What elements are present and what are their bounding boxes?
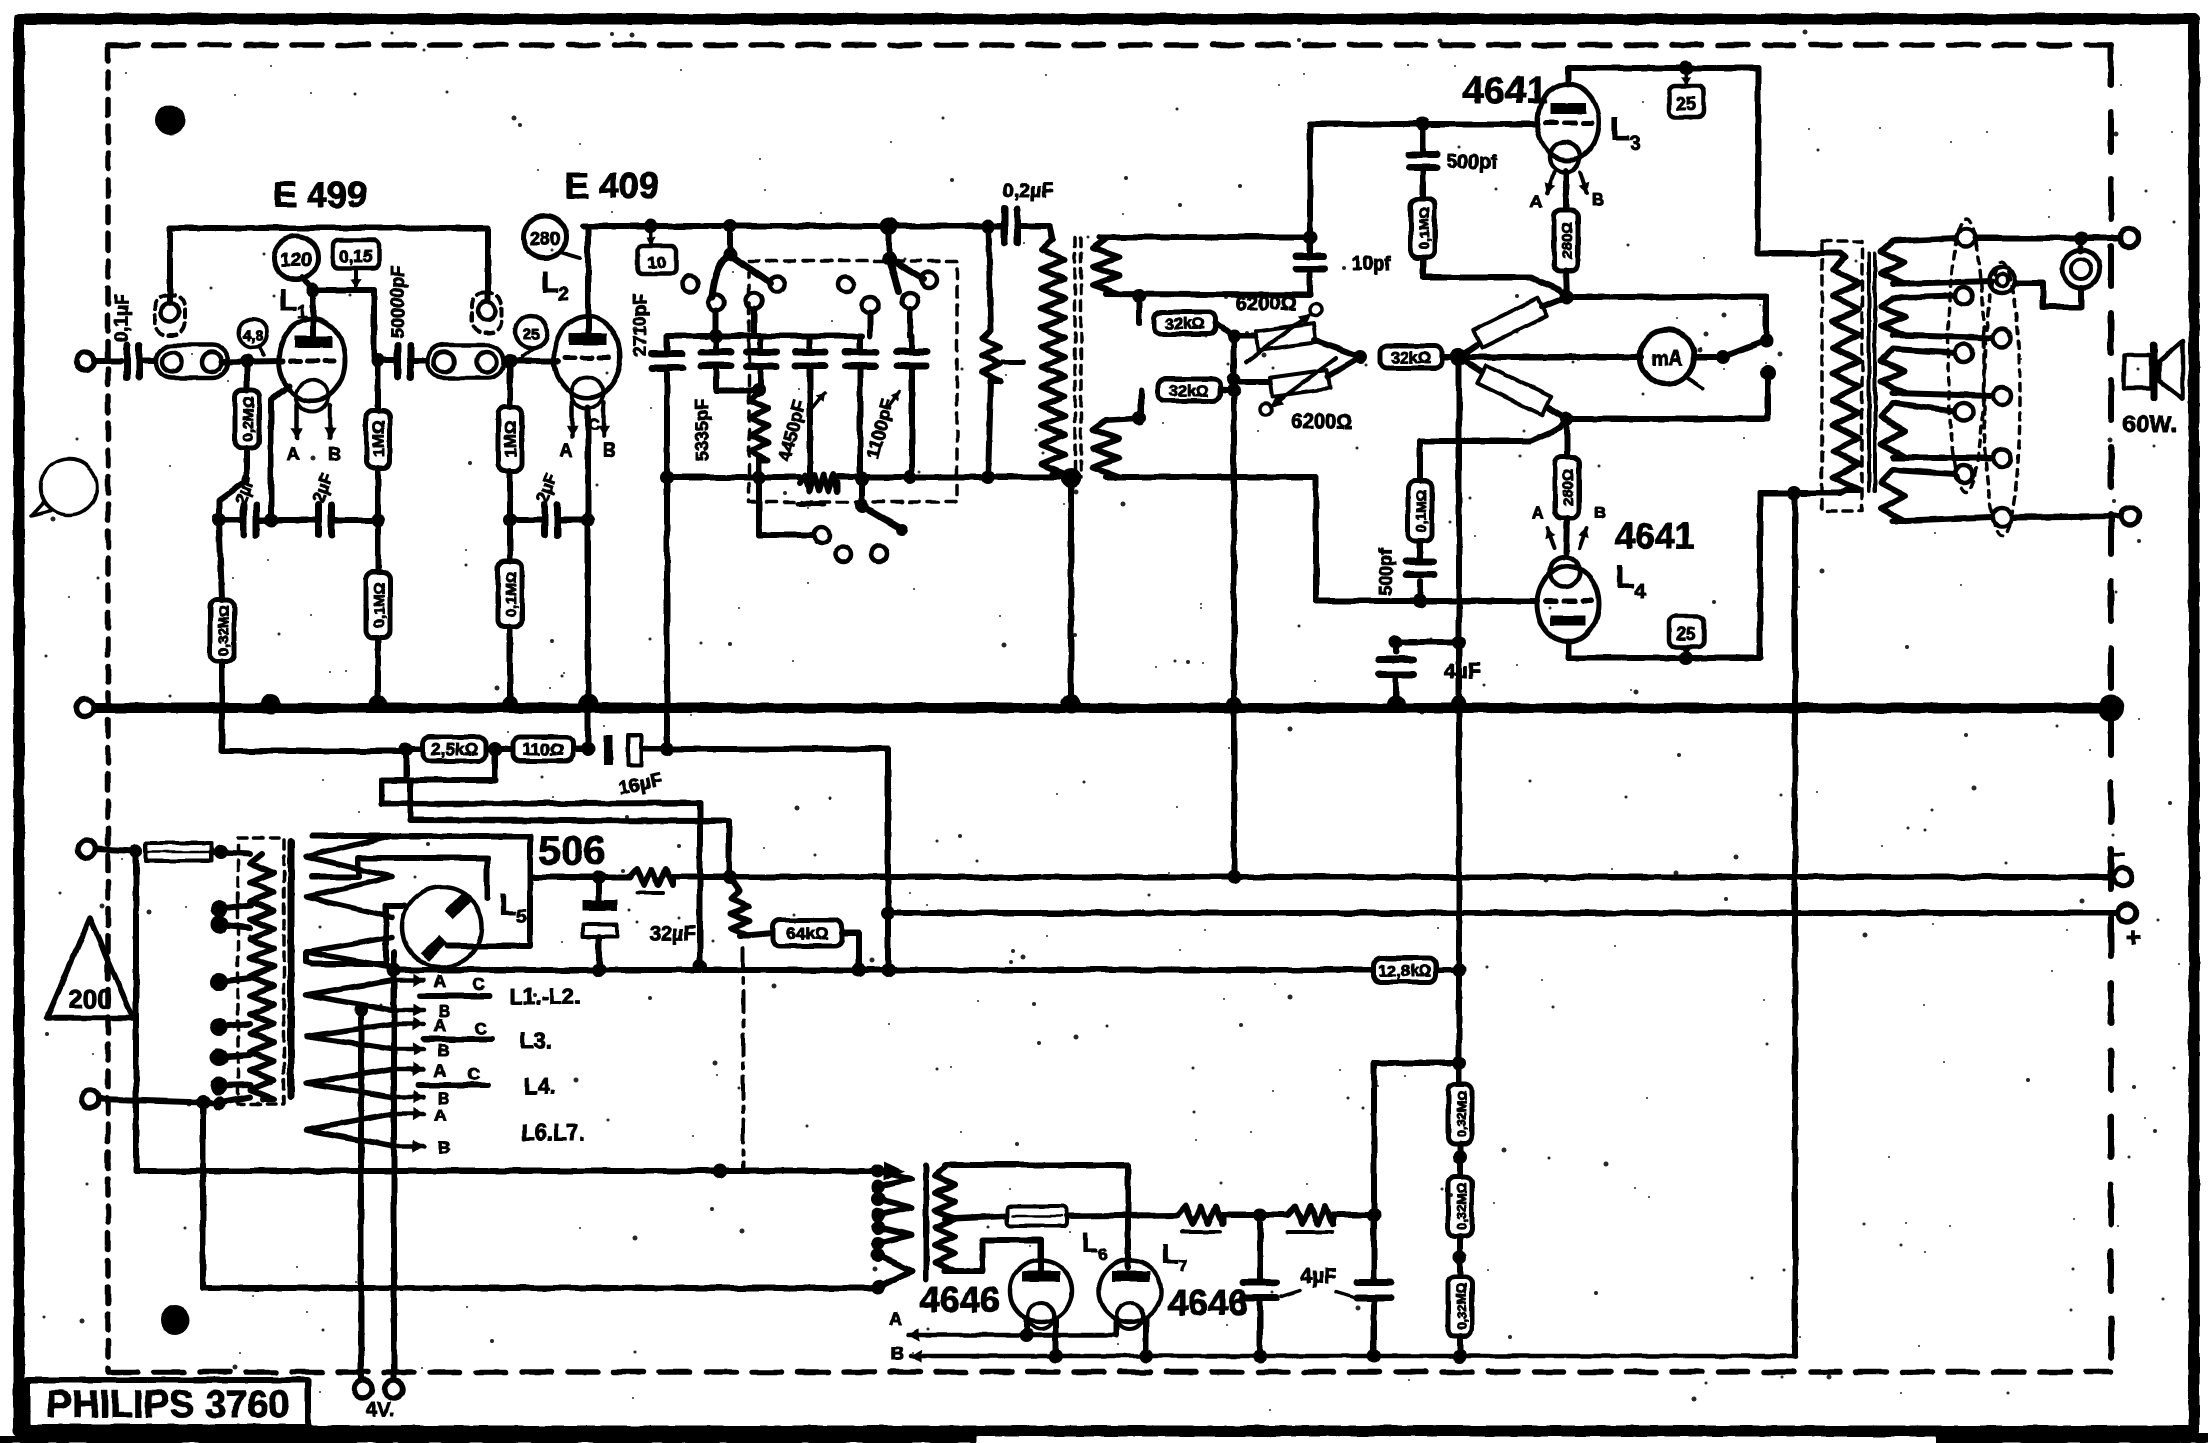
contact b3 <box>902 293 918 309</box>
anode loop L6 <box>945 1240 1041 1271</box>
node anode L1 <box>306 283 320 297</box>
svg-text:120: 120 <box>280 250 312 271</box>
resistor 0,2M-ohm <box>219 362 259 520</box>
node feedback mid <box>1452 635 1466 704</box>
tube L7 <box>1099 1260 1161 1329</box>
sec top tap <box>1106 289 1310 303</box>
node 1M bottom row <box>371 513 385 527</box>
switch S1 pivot <box>723 219 737 261</box>
svg-text:L: L <box>1615 559 1635 595</box>
speaker line bottom <box>2013 507 2139 525</box>
filter bottom rail <box>667 475 1040 504</box>
resistor 280ohm L3 <box>1554 170 1578 297</box>
resistor 32k middle <box>1380 346 1459 368</box>
ground bus <box>94 703 2111 713</box>
node minus mid <box>1227 870 1241 884</box>
svg-text:L: L <box>279 284 297 317</box>
wire J1 to grid L1 <box>222 354 283 368</box>
node transformer bottom <box>1061 468 1081 488</box>
svg-text:0,1MΩ: 0,1MΩ <box>1413 490 1429 532</box>
svg-text:10pf: 10pf <box>1352 254 1392 275</box>
svg-text:4µF: 4µF <box>1444 660 1481 683</box>
label E499 <box>273 174 367 215</box>
svg-text:6200Ω: 6200Ω <box>1292 411 1353 433</box>
label 506 <box>539 829 606 873</box>
node cathode L1 row <box>264 513 278 527</box>
box 25 top <box>1669 68 1704 117</box>
wire node down <box>1456 357 1462 642</box>
svg-text:4641: 4641 <box>1463 70 1548 112</box>
svg-text:L: L <box>541 266 559 299</box>
svg-text:A: A <box>434 972 446 991</box>
capacitor bank c6 <box>863 336 927 477</box>
svg-text:B: B <box>438 1041 450 1060</box>
svg-text:B: B <box>438 1138 450 1157</box>
driver top loop <box>945 1165 1128 1167</box>
wire cathode C of L2 <box>585 408 591 520</box>
node sec top <box>1303 230 1317 244</box>
lower return wire <box>203 1102 880 1288</box>
svg-text:0,1MΩ: 0,1MΩ <box>1416 207 1432 249</box>
meter circle 280 <box>524 216 580 258</box>
tube L2 <box>554 316 620 409</box>
heater line 1C <box>420 975 580 1009</box>
filament lead A of L1 <box>287 405 304 464</box>
svg-text:mA: mA <box>1651 348 1683 370</box>
label L2 <box>541 266 569 304</box>
anode L3 wire <box>1568 61 1758 84</box>
node grid-cap row left <box>212 513 226 527</box>
tube L1 <box>279 319 345 412</box>
svg-text:12,8kΩ: 12,8kΩ <box>1379 963 1432 980</box>
label 60W <box>2123 411 2178 438</box>
svg-text:0,32MΩ: 0,32MΩ <box>1454 1283 1469 1330</box>
svg-text:B: B <box>604 440 617 460</box>
svg-text:0,1µF: 0,1µF <box>112 294 133 343</box>
OPT primary <box>1833 253 1859 493</box>
svg-text:PHILIPS 3760: PHILIPS 3760 <box>47 1384 290 1426</box>
node bias b <box>488 742 502 756</box>
OPT secondary s4 <box>1881 403 1992 458</box>
contact stub a3 <box>751 309 757 336</box>
label 4uF pair <box>1282 1265 1356 1298</box>
grommet circle left edge <box>31 459 97 516</box>
speaker icon <box>2124 341 2183 399</box>
volume link dash-dot <box>741 948 745 1171</box>
svg-text:3: 3 <box>1629 133 1640 155</box>
svg-text:0,1MΩ: 0,1MΩ <box>503 571 520 616</box>
node 1M second bottom <box>503 513 517 527</box>
svg-text:L: L <box>1081 1227 1098 1258</box>
rectifier output <box>387 952 401 977</box>
heater winding 4 <box>306 1114 392 1146</box>
input terminal <box>76 352 121 370</box>
svg-text:A: A <box>434 1106 446 1125</box>
svg-text:0,15: 0,15 <box>339 247 372 266</box>
wire 120 to anode node <box>303 278 313 291</box>
svg-text:6: 6 <box>1098 1245 1107 1264</box>
node filter rail b <box>752 470 766 484</box>
node filter rail d <box>903 470 917 484</box>
node bus feedback <box>1226 696 1467 970</box>
OPT secondary s1 <box>1881 238 1992 284</box>
node chain a <box>1453 1144 1467 1177</box>
plug P1 <box>155 295 185 335</box>
tube L4 <box>1537 557 1599 642</box>
heater winding 2 <box>306 1024 392 1049</box>
contact a1 <box>682 276 698 292</box>
interstage core <box>1075 237 1081 478</box>
tube L6 <box>1010 1260 1072 1329</box>
svg-text:25: 25 <box>523 326 540 343</box>
resistor chain 0,32M a <box>1448 970 1472 1144</box>
bottom scan bar <box>0 1433 2209 1443</box>
svg-text:25: 25 <box>1676 624 1696 644</box>
hum loop <box>382 749 496 780</box>
heater arrow 4A <box>392 1106 446 1125</box>
shunt resistor right <box>981 219 1023 477</box>
capacitor 2uF c <box>510 471 588 535</box>
filament lead B of L1 <box>324 405 342 464</box>
node filter rail a <box>660 470 674 484</box>
circle 25 <box>515 316 547 357</box>
svg-text:4646: 4646 <box>920 1279 1000 1320</box>
sec bottom lead <box>1106 477 1537 601</box>
potmeter 5335 <box>750 392 768 477</box>
driver secondary <box>935 1167 955 1271</box>
svg-text:2: 2 <box>559 284 569 304</box>
wire J2 to grid L2 <box>505 358 558 364</box>
interstage secondary top <box>1093 237 1310 294</box>
meter select wire L3 <box>1567 297 1766 340</box>
wire bias row left <box>222 748 406 754</box>
OPT secondary s2 <box>1881 296 1992 338</box>
plug P2 <box>472 293 502 333</box>
filament line B <box>891 1318 1796 1364</box>
resistor 280ohm L4 <box>1555 419 1579 553</box>
wire anode L3 to OPT <box>1758 68 1840 253</box>
svg-text:6200Ω: 6200Ω <box>1236 293 1297 315</box>
box 10 <box>638 219 676 274</box>
svg-text:E 409: E 409 <box>565 165 659 206</box>
heater arrow 1A <box>392 972 446 991</box>
primary taps <box>210 900 250 1103</box>
svg-text:7: 7 <box>1178 1256 1187 1275</box>
svg-text:L: L <box>499 889 517 922</box>
resistor 32k first <box>1139 296 1234 336</box>
switch S1 arm <box>712 255 785 297</box>
capacitor 32uF <box>583 877 696 970</box>
capacitor bank c3 <box>692 336 776 461</box>
capacitor bank c4 <box>775 336 825 477</box>
capacitor 4uF first <box>1379 635 1481 713</box>
svg-text:A: A <box>287 444 300 464</box>
node cathode L2 row <box>581 513 595 527</box>
heater winding 1 <box>306 980 392 1010</box>
contact a2 <box>708 295 724 311</box>
svg-text:280Ω: 280Ω <box>1560 469 1577 506</box>
bias row wire <box>406 746 667 752</box>
svg-text:L: L <box>1610 111 1630 147</box>
wire 16uF junction up <box>664 477 670 749</box>
wire anode node down <box>310 290 316 338</box>
svg-text:50000pF: 50000pF <box>388 266 408 338</box>
rectifier loop inner <box>312 858 487 898</box>
capacitor 2uF a <box>219 473 271 535</box>
filament lead A of L2 <box>560 402 579 460</box>
svg-text:4,8: 4,8 <box>243 327 263 343</box>
svg-text:L6.L7.: L6.L7. <box>521 1120 585 1145</box>
svg-text:B: B <box>329 444 342 464</box>
tube L5 <box>402 887 482 967</box>
label 4641 bottom <box>1615 515 1695 556</box>
fuse <box>146 843 212 861</box>
tube L3 <box>1537 84 1599 172</box>
svg-text:B: B <box>891 1344 904 1364</box>
interstage secondary bottom <box>1093 411 1146 477</box>
svg-text:5335pF: 5335pF <box>692 399 712 461</box>
filament A L3 <box>1530 172 1556 211</box>
node mains b <box>196 1095 226 1110</box>
switch S2 arm <box>889 259 937 292</box>
svg-text:L1.-L2.: L1.-L2. <box>510 984 581 1009</box>
capacitor 0,1uF <box>112 294 156 377</box>
label 4V <box>366 1399 394 1421</box>
svg-text:4646: 4646 <box>1168 1282 1248 1323</box>
triangle 200 <box>47 918 133 1018</box>
wire plug P1 to HT rail <box>167 228 173 303</box>
HV secondary winding <box>306 836 530 917</box>
wire c2 bottom <box>716 383 766 397</box>
filament B L3 <box>1579 172 1605 209</box>
cap top rail <box>667 329 862 343</box>
svg-text:200: 200 <box>68 984 111 1014</box>
heater line 3C <box>418 1065 556 1099</box>
terminal plus <box>2118 904 2141 952</box>
resistor 0,1M L4 <box>1408 419 1567 541</box>
svg-text:0,32MΩ: 0,32MΩ <box>215 605 231 655</box>
bus junction 0,1M first <box>369 695 387 713</box>
contact s3a <box>759 477 830 543</box>
svg-text:4641: 4641 <box>1615 515 1695 556</box>
mains terminal 1 <box>78 840 134 858</box>
bus end blob <box>2098 695 2124 721</box>
bus terminal left <box>76 699 94 717</box>
contact stub b3 <box>907 309 913 336</box>
svg-text:5: 5 <box>517 907 527 927</box>
svg-text:A: A <box>434 1061 446 1080</box>
node plus start <box>881 906 895 977</box>
grid resistor b <box>1260 1206 1374 1232</box>
wire L1 cathode down <box>271 386 289 520</box>
contact b1 <box>838 276 854 292</box>
svg-text:10: 10 <box>648 253 667 272</box>
registration dot top-left <box>155 105 185 135</box>
label C lead L2 <box>588 417 600 434</box>
OPT core <box>1869 254 1875 491</box>
node minus pot <box>723 870 737 884</box>
svg-text:A: A <box>1532 503 1544 522</box>
switch S2 pivot <box>880 217 898 265</box>
svg-text:1MΩ: 1MΩ <box>501 420 520 457</box>
capacitor bank c5 <box>845 336 875 477</box>
left drop wire <box>133 851 139 1171</box>
svg-text:0,32MΩ: 0,32MΩ <box>1454 1183 1469 1230</box>
node bias a <box>399 742 413 756</box>
capacitor 2uF b <box>271 471 378 535</box>
node bias d <box>660 742 674 756</box>
dashed selector box <box>749 261 957 502</box>
contact a3 <box>746 293 762 309</box>
box 25 bottom <box>1669 616 1704 656</box>
resistor 12,8k <box>1374 958 1436 982</box>
bias feed b <box>410 780 729 877</box>
resistor 1M-ohm first <box>366 360 390 520</box>
line minus <box>530 869 2114 893</box>
capacitor 50000pF <box>378 266 430 377</box>
svg-text:A: A <box>889 1309 902 1329</box>
grid wire L3 <box>1310 117 1537 237</box>
svg-text:C: C <box>473 975 485 994</box>
registration dot bottom-left <box>160 1305 190 1335</box>
label L3 <box>1610 111 1640 155</box>
heater arrow 2A <box>392 1016 446 1035</box>
svg-text:60W.: 60W. <box>2123 411 2178 438</box>
svg-text:110Ω: 110Ω <box>522 740 563 759</box>
rheostat 6200 first <box>1234 293 1360 362</box>
svg-text:C: C <box>475 1019 487 1038</box>
resistor 0,1M-ohm second <box>498 520 522 704</box>
resistor chain 0,32M b <box>1448 1177 1472 1236</box>
resistor 0,1M L3 <box>1411 199 1567 297</box>
svg-text:1MΩ: 1MΩ <box>369 420 388 457</box>
wire anode L4 to OPT <box>1760 486 1840 658</box>
tap oval B <box>1984 262 2020 536</box>
cathode wire L4 row <box>1560 412 1766 426</box>
label L1 <box>279 284 307 322</box>
node driver center <box>1450 348 1468 366</box>
heater arrow 1B <box>354 1002 450 1021</box>
label L7 <box>1161 1238 1187 1275</box>
svg-text:1: 1 <box>297 302 307 322</box>
resistor 32k second <box>1141 379 1234 418</box>
svg-text:4µF: 4µF <box>1300 1265 1337 1288</box>
svg-text:B: B <box>1594 503 1606 522</box>
jack J2 <box>428 345 504 378</box>
svg-text:2,5kΩ: 2,5kΩ <box>431 740 478 759</box>
primary winding <box>250 854 274 1099</box>
PHILIPS 3760 title box <box>27 1380 308 1427</box>
svg-text:32kΩ: 32kΩ <box>1165 316 1205 333</box>
OPT secondary s5 <box>1881 470 1992 521</box>
label 4646 right <box>1168 1282 1248 1323</box>
node filter rail e <box>981 470 995 484</box>
capacitor 0,2uF <box>988 180 1054 243</box>
wire 16uF to plus line <box>667 749 888 970</box>
node coupling C1 <box>371 353 385 367</box>
node grid L4 <box>1413 594 1427 608</box>
meter circle 120 <box>274 236 318 280</box>
svg-text:0,2µF: 0,2µF <box>1002 180 1054 202</box>
line heater mid <box>394 967 1459 973</box>
node 32uF bottom <box>592 963 606 977</box>
resistor 0,1M-ohm first <box>366 520 390 704</box>
svg-text:L4.: L4. <box>524 1074 556 1099</box>
svg-text:L3.: L3. <box>520 1028 552 1053</box>
speaker line top <box>1975 229 2138 247</box>
terminal minus <box>2111 838 2132 886</box>
transformer core <box>288 842 295 1096</box>
contact stub a2 <box>713 311 719 336</box>
OPT secondary s3 <box>1881 349 1992 396</box>
filament feed left <box>354 1010 372 1398</box>
OPT primary dashed box <box>1822 241 1862 511</box>
meter mA <box>1459 330 1703 388</box>
node rheostat join <box>1353 350 1367 364</box>
filament feed right <box>385 970 403 1398</box>
capacitor 4uF b <box>1357 1215 1391 1363</box>
bus junction L2 cathode <box>578 694 598 714</box>
label L5 <box>499 889 527 927</box>
anode L4 wire <box>1568 642 1760 665</box>
svg-text:4: 4 <box>1634 581 1646 603</box>
heater bus line <box>136 1161 905 1181</box>
rheostat 6200 second <box>1234 357 1360 433</box>
wire 32k join down <box>1231 336 1237 878</box>
filament A L4 <box>1532 503 1556 548</box>
node fuse left <box>129 844 143 858</box>
circle 4,8 <box>239 319 267 355</box>
divider resistor lower <box>1459 357 1567 419</box>
feedback branch <box>1374 1056 1466 1215</box>
svg-text:32kΩ: 32kΩ <box>1391 350 1431 367</box>
grid wire L7 <box>1125 1165 1131 1268</box>
node chain b <box>1453 1236 1467 1277</box>
svg-text:64kΩ: 64kΩ <box>787 924 829 943</box>
filament B L4 <box>1579 503 1607 548</box>
wire OPT tap to bus <box>1792 493 1798 1356</box>
svg-text:A: A <box>1530 192 1542 211</box>
filament line A <box>889 1309 1118 1342</box>
node grid res <box>1253 1208 1267 1222</box>
wire L2 cathode to bias row <box>585 520 591 748</box>
node grid res b <box>1367 1208 1381 1222</box>
svg-text:32kΩ: 32kΩ <box>1169 383 1209 400</box>
resistor 2,5k <box>423 737 486 761</box>
node cathode L3 <box>1560 290 1574 304</box>
heater line 2C <box>424 1019 552 1053</box>
tap terminals column A <box>1955 229 1975 483</box>
node 32k b <box>1227 373 1241 398</box>
grid resistor a <box>1178 1206 1260 1232</box>
resistor chain 0,32M c <box>1448 1277 1472 1363</box>
meter switch <box>1694 334 1776 419</box>
resistor 1M-ohm second <box>498 361 522 520</box>
line plus <box>888 910 2118 916</box>
rectifier filament wire <box>312 906 404 964</box>
svg-text:500pf: 500pf <box>1376 547 1396 595</box>
svg-text:2710pF: 2710pF <box>630 294 650 356</box>
node bias c <box>581 742 595 756</box>
svg-text:0,1MΩ: 0,1MΩ <box>371 582 388 627</box>
filament lead B of L2 <box>598 402 617 460</box>
wire rail to plug P2 <box>485 228 491 300</box>
driver mid tap <box>945 1209 1060 1222</box>
grid fuse <box>1007 1206 1178 1226</box>
wire anode node right <box>313 290 374 356</box>
driver transformer left chevrons <box>878 1171 912 1287</box>
rectifier loop outer <box>312 836 530 946</box>
